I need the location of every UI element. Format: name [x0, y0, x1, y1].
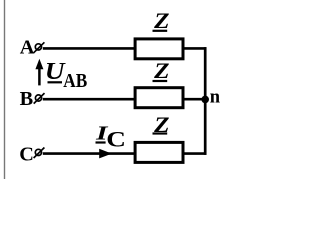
- svg-text:C: C: [19, 143, 34, 165]
- voltage arrow U_AB: [35, 59, 43, 86]
- label Z1: [153, 9, 170, 33]
- left page border: [4, 0, 6, 179]
- wire Z3 to bus: [183, 152, 206, 155]
- wire B (terminal to Z2): [43, 98, 136, 101]
- terminal B (circle with slash): [34, 93, 45, 104]
- wire Z1 to bus: [183, 47, 206, 50]
- impedance Z3: [135, 142, 183, 162]
- svg-text:AB: AB: [63, 70, 87, 92]
- current arrowhead I_C: [99, 149, 112, 159]
- terminal A (circle with slash): [34, 42, 45, 53]
- wire A (terminal to Z1): [43, 47, 136, 50]
- svg-text:B: B: [20, 88, 34, 110]
- label U_AB: [45, 58, 88, 92]
- wire right bus: [204, 47, 207, 155]
- svg-text:n: n: [210, 88, 221, 108]
- svg-text:A: A: [20, 37, 35, 59]
- label Z2: [153, 59, 170, 83]
- impedance Z2: [135, 88, 183, 108]
- terminal C (circle with slash): [34, 148, 45, 159]
- label Z3: [153, 113, 170, 137]
- wire Z2 to bus: [183, 98, 206, 101]
- wire C (terminal to Z3): [43, 152, 136, 155]
- impedance Z1: [135, 39, 183, 59]
- current label I_C: [95, 123, 126, 152]
- svg-text:C: C: [106, 128, 126, 152]
- node n (junction dot): [201, 96, 209, 104]
